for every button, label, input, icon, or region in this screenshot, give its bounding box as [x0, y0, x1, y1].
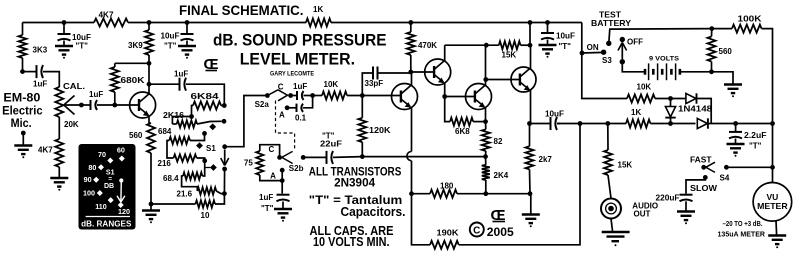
svg-text:dB. SOUND PRESSURE: dB. SOUND PRESSURE: [213, 30, 387, 49]
node V+ stub: [580, 51, 585, 56]
wire: [282, 202, 284, 209]
node 3K9/680K/collector: [147, 61, 152, 66]
node tap contact: [202, 158, 207, 163]
battery plate: [679, 69, 682, 75]
wire: [445, 97, 450, 122]
wiper node: [79, 103, 84, 108]
ground below 2.2uF: [727, 143, 745, 145]
svg-text:680K: 680K: [121, 76, 145, 85]
resistor R 6K84: [193, 102, 221, 110]
node Q5e/2k7/10uF: [527, 121, 532, 126]
svg-text:4K7: 4K7: [38, 146, 53, 155]
wire: [287, 107, 296, 109]
svg-text:S4: S4: [720, 173, 730, 182]
node 190K rail: [578, 121, 583, 126]
ground below 4K7: [50, 177, 68, 179]
svg-text:1uF: 1uF: [33, 79, 47, 88]
wire: [529, 124, 531, 147]
battery plate: [661, 69, 664, 75]
svg-text:110: 110: [95, 202, 107, 211]
wire: [361, 142, 363, 157]
wire step to 216: [167, 141, 174, 159]
wire: [412, 194, 431, 245]
wire: [685, 201, 687, 210]
svg-text:C: C: [269, 145, 275, 154]
svg-text:15K: 15K: [618, 161, 633, 170]
wire emitter Q1: [148, 116, 150, 123]
wire: [711, 62, 713, 72]
node caps out: [310, 93, 315, 98]
wire: [114, 92, 116, 105]
S2a contact fork: [278, 90, 288, 101]
wire: [529, 194, 532, 214]
node diode tap: [668, 96, 673, 101]
svg-text:60: 60: [117, 146, 125, 155]
svg-text:2005: 2005: [487, 227, 515, 239]
wire: [151, 203, 196, 205]
wire 10K to Q2 base: [347, 95, 401, 97]
svg-text:1uF: 1uF: [174, 70, 188, 79]
svg-text:470K: 470K: [418, 41, 437, 50]
wire battery to ground tap: [680, 71, 712, 73]
battery plate: [644, 69, 647, 75]
svg-text:"T": "T": [164, 42, 177, 51]
wire A to 1uF T: [281, 170, 283, 193]
svg-text:2.2uF: 2.2uF: [744, 131, 767, 140]
svg-text:120: 120: [118, 207, 130, 216]
wire pot to 4K7: [58, 117, 60, 139]
node tap contact: [222, 119, 227, 124]
S2b pole: [301, 155, 306, 160]
wire: [485, 157, 487, 165]
wire: [493, 221, 506, 223]
wire: [378, 72, 411, 74]
node ladder top: [222, 103, 227, 108]
svg-text:21.6: 21.6: [177, 190, 193, 199]
wire: [485, 180, 487, 194]
node mic/3K3/1uF: [20, 69, 25, 74]
wire: [361, 96, 363, 118]
wire 684 tap: [190, 135, 205, 141]
wire: [557, 123, 626, 125]
wire: [735, 139, 737, 144]
svg-text:Capacitors.: Capacitors.: [341, 204, 406, 219]
wire rail to 3K3: [22, 23, 24, 36]
S3 centre contact: [606, 41, 611, 46]
resistor R 15K (Q3/Q5): [499, 41, 521, 49]
potentiometer 20K CAL.: [55, 87, 63, 117]
dashed S2 gang line: [276, 101, 295, 151]
svg-text:DB: DB: [104, 183, 114, 190]
resistor R 10: [196, 200, 216, 207]
wire 75 to A node: [260, 175, 282, 181]
wire: [529, 169, 532, 193]
wire: [221, 105, 224, 107]
wire 10 to column: [215, 194, 224, 204]
node vertical diode row: [668, 121, 673, 126]
ground below 1uF T: [274, 208, 292, 210]
transistor Q2 2N3904: [392, 84, 418, 110]
wire: [260, 145, 280, 158]
junction on V+ rail: [62, 20, 67, 25]
wire: [708, 123, 773, 125]
svg-text:4K7: 4K7: [99, 11, 115, 20]
panel wiper arrow: [119, 178, 123, 182]
svg-text:"T": "T": [749, 142, 762, 151]
svg-text:SLOW: SLOW: [690, 184, 718, 193]
node 2k7 bottom/ground: [528, 191, 533, 196]
wire: [445, 44, 499, 46]
wire: [411, 107, 413, 152]
svg-text:S3: S3: [602, 56, 612, 65]
wire meter rail down: [762, 29, 773, 183]
resistor R 10K (battery test): [627, 95, 655, 103]
svg-text:EM-80: EM-80: [3, 93, 40, 105]
svg-text:6K8: 6K8: [455, 127, 470, 136]
wire: [150, 204, 152, 210]
wire to Q4 base: [445, 96, 475, 98]
S4 contact fork: [706, 162, 715, 172]
wire: [64, 96, 75, 106]
svg-text:2N3904: 2N3904: [334, 175, 375, 189]
capacitor C 1uF T (S2b): [277, 194, 290, 196]
wire Q3 collector: [444, 45, 446, 61]
svg-text:216: 216: [158, 159, 172, 168]
wire: [712, 28, 732, 30]
panel contact diamond: [108, 197, 114, 203]
svg-text:–20 TO +3 dB.: –20 TO +3 dB.: [723, 221, 763, 228]
wire contact column: [223, 169, 225, 194]
resistor R 1K (meter): [626, 120, 650, 128]
svg-text:"T": "T": [559, 42, 572, 51]
wire: [225, 158, 229, 166]
panel contact diamond: [118, 202, 124, 208]
ground mic: [14, 144, 32, 146]
panel contact diamond: [98, 164, 104, 170]
junction on V+ rail: [528, 20, 533, 25]
svg-text:100K: 100K: [738, 15, 762, 24]
wire: [459, 124, 580, 245]
svg-text:10: 10: [201, 211, 210, 220]
wire: [485, 122, 487, 130]
S3 pole: [620, 59, 625, 64]
panel contact diamond: [119, 156, 125, 162]
node base/680K: [112, 103, 117, 108]
resistor R 21.6: [197, 187, 216, 194]
wire: [333, 156, 362, 159]
capacitor C 22uF T: [326, 151, 328, 164]
svg-text:A: A: [270, 172, 276, 181]
resistor R 2K4: [482, 165, 490, 180]
svg-text:68.4: 68.4: [163, 174, 179, 183]
wire: [607, 124, 609, 151]
wire: [186, 41, 188, 46]
wire: [412, 193, 431, 195]
transistor Q5 2N3904: [511, 67, 536, 92]
S1 pole: [222, 144, 227, 149]
S3 ON contact: [601, 50, 606, 55]
wire: [23, 71, 37, 73]
svg-text:METER: METER: [757, 201, 788, 211]
wire: [23, 22, 95, 24]
wire stub to ON contact: [582, 51, 604, 54]
svg-text:2K4: 2K4: [494, 171, 509, 180]
svg-text:LEVEL METER.: LEVEL METER.: [240, 49, 355, 68]
wire: [362, 73, 373, 96]
node tap/bottom column: [222, 191, 227, 196]
capacitor C 1uF (S2a C position): [296, 91, 298, 100]
S2b contact fork: [282, 151, 293, 163]
ground below 10uF T: [55, 45, 73, 47]
node Q3e/Q4b: [442, 94, 447, 99]
ground below 10uF T: [178, 45, 196, 47]
svg-text:A: A: [279, 111, 285, 120]
wire 560 to ground rail: [150, 153, 152, 204]
S1 selected contact: [222, 167, 227, 172]
S4 SLOW contact: [703, 175, 708, 180]
wire: [557, 123, 560, 125]
node Q2e/180/190K: [409, 191, 414, 196]
svg-text:=: =: [108, 176, 112, 183]
wire: [43, 72, 59, 87]
wire: [225, 96, 268, 147]
resistor R 190K: [430, 241, 459, 249]
node audio branch: [605, 121, 610, 126]
wire: [224, 150, 226, 166]
panel separator line: [86, 216, 130, 218]
wire rail to 15K node: [529, 23, 531, 46]
resistor R 4K7 (pot bottom): [55, 139, 63, 167]
panel contact diamond: [107, 158, 113, 164]
panel dB. RANGES (black box): [79, 144, 136, 230]
battery plate: [675, 63, 677, 80]
node meter rail: [770, 121, 775, 126]
svg-text:1K: 1K: [313, 5, 323, 14]
battery plate: [648, 63, 650, 80]
wire node to Q3 base: [411, 71, 434, 73]
junction on V+ rail: [545, 20, 550, 25]
wire: [304, 95, 313, 97]
svg-text:S1: S1: [206, 144, 216, 153]
S2a A contact: [285, 105, 290, 110]
wire Q3 emitter: [444, 83, 446, 97]
node Q2 collector/Q3 base: [408, 70, 413, 75]
svg-text:10K: 10K: [637, 83, 652, 92]
node tap contact: [202, 131, 207, 136]
svg-text:10uF: 10uF: [545, 110, 564, 119]
wire: [582, 23, 627, 99]
wire 21.6 tap: [216, 191, 224, 194]
junction on V+ rail: [147, 20, 152, 25]
wire: [267, 90, 278, 96]
wire: [148, 55, 150, 63]
resistor R 1K (supply): [306, 19, 331, 27]
resistor R 560 (Q1 emitter): [147, 123, 155, 153]
wire: [115, 62, 149, 64]
wire: [128, 22, 306, 24]
mic terminal: [21, 131, 26, 136]
wire meter to ground: [775, 221, 778, 235]
wire: [547, 40, 549, 45]
wire 216/68.4 right step: [197, 158, 205, 176]
svg-text:70: 70: [98, 150, 106, 159]
svg-text:10 VOLTS MIN.: 10 VOLTS MIN.: [313, 235, 390, 249]
svg-text:10uF: 10uF: [556, 32, 575, 41]
S1 contact diamond: [209, 123, 216, 130]
wire to Q1 base: [97, 104, 139, 106]
wire to ground: [712, 72, 734, 84]
battery plate: [652, 69, 655, 75]
battery plate: [657, 63, 659, 80]
resistor R 2K16: [177, 120, 197, 127]
wire: [547, 23, 549, 33]
node 2K4 bottom: [483, 191, 488, 196]
junction meter rail: [770, 165, 775, 170]
ground battery: [724, 83, 742, 85]
wire: [64, 104, 81, 106]
node after C contact: [288, 93, 293, 98]
transistor Q4 2N3904: [466, 84, 492, 110]
wire: [735, 124, 737, 132]
diode D 1N4148 (top row): [686, 93, 696, 103]
wire: [58, 167, 60, 177]
svg-text:1uF: 1uF: [293, 82, 307, 91]
node 82/2K4: [483, 154, 488, 159]
wire: [313, 95, 322, 97]
svg-text:9 VOLTS: 9 VOLTS: [649, 56, 680, 63]
wire: [521, 44, 531, 46]
wire: [530, 123, 551, 125]
svg-text:80: 80: [88, 163, 96, 172]
svg-text:90: 90: [84, 175, 92, 184]
node 15K/Q4 collector: [484, 43, 489, 48]
wire: [670, 118, 672, 124]
wire step to 21.6: [182, 176, 198, 191]
wire: [473, 121, 485, 123]
meter VU: [753, 183, 792, 222]
node 75/A: [280, 178, 285, 183]
S3 OFF contact: [620, 37, 625, 42]
diode D 1N4148 (meter row): [697, 118, 707, 128]
svg-text:22uF: 22uF: [320, 140, 342, 149]
wire: [622, 62, 645, 72]
wire: [410, 23, 412, 33]
wire to Q5 base: [486, 79, 520, 81]
wire: [611, 219, 613, 232]
svg-text:2k7: 2k7: [539, 155, 553, 164]
wire: [149, 122, 151, 124]
svg-text:S2b: S2b: [289, 164, 304, 173]
wire: [186, 23, 188, 34]
S1 contact diamond: [210, 164, 217, 171]
wire SLOW to 220uF: [686, 177, 705, 193]
wire: [485, 151, 487, 157]
wire: [410, 55, 412, 72]
svg-text:3K3: 3K3: [33, 46, 48, 55]
wire: [650, 123, 695, 125]
transistor Q3 2N3904: [425, 59, 451, 85]
resistor R 684: [169, 137, 190, 144]
wire: [149, 83, 180, 85]
svg-text:75: 75: [244, 159, 253, 168]
panel contact diamond: [97, 190, 103, 196]
wire row to 82/2K4 node: [362, 156, 485, 158]
svg-text:S2a: S2a: [255, 100, 270, 109]
svg-text:dB. RANGES: dB. RANGES: [81, 220, 132, 229]
wire contact to meter node: [609, 29, 712, 44]
wire 3K3 to mic node: [22, 58, 24, 72]
wire: [331, 22, 582, 24]
wire 2K16 tap: [197, 121, 222, 124]
wire: [63, 41, 65, 46]
svg-text:1K: 1K: [631, 108, 641, 117]
wire: [221, 158, 225, 166]
wire: [148, 23, 150, 31]
capacitor C 220uF: [680, 194, 693, 196]
svg-text:220uF: 220uF: [656, 193, 680, 202]
wire: [618, 43, 622, 51]
svg-text:2K16: 2K16: [163, 111, 185, 120]
node collector/1uF out: [147, 82, 152, 87]
svg-text:FAST: FAST: [690, 155, 712, 164]
svg-text:FINAL SCHEMATIC.: FINAL SCHEMATIC.: [179, 2, 304, 18]
resistor R 4K7 (supply filter): [94, 19, 128, 27]
ground center rail: [522, 213, 540, 215]
wire diode down to meter row: [697, 99, 712, 124]
panel contact diamond: [93, 177, 99, 183]
svg-text:10uF: 10uF: [161, 32, 180, 41]
resistor R 68.4: [183, 172, 202, 179]
svg-text:684: 684: [158, 127, 172, 136]
svg-text:OUT: OUT: [634, 210, 651, 219]
wire 6K84 left step: [192, 106, 194, 117]
copyright: [470, 223, 484, 237]
svg-text:GARY LECOMTE: GARY LECOMTE: [270, 71, 314, 78]
svg-text:ON: ON: [587, 43, 599, 52]
wire: [411, 161, 413, 194]
node Q4e/6K8/82: [483, 119, 488, 124]
wire collector Q1: [148, 63, 150, 94]
transistor Q1 2N3904: [130, 92, 156, 118]
svg-text:3K9: 3K9: [128, 41, 143, 50]
battery plate: [670, 69, 673, 75]
svg-text:560: 560: [129, 131, 143, 140]
wire: [81, 104, 90, 106]
S2b A contact: [280, 168, 285, 173]
resistor R 82: [482, 129, 490, 151]
svg-text:C: C: [473, 225, 480, 236]
svg-text:CAL.: CAL.: [63, 82, 85, 91]
node tap: [189, 114, 194, 119]
wire: [711, 29, 713, 37]
svg-text:15K: 15K: [502, 51, 517, 60]
svg-text:100: 100: [83, 189, 95, 198]
wire: [114, 63, 116, 67]
wire: [64, 105, 75, 115]
S2b C contact: [277, 155, 282, 160]
node 2.2uF tap: [733, 121, 738, 126]
svg-text:Mic.: Mic.: [11, 118, 32, 130]
svg-text:"T": "T": [261, 204, 274, 213]
S1 contact diamond: [196, 142, 203, 149]
svg-text:120K: 120K: [369, 126, 391, 135]
wire: [621, 43, 623, 60]
node 120K bottom: [360, 154, 365, 159]
ground Q1 emitter network: [142, 209, 160, 211]
wire: [206, 70, 218, 72]
svg-text:135uA METER: 135uA METER: [718, 231, 766, 238]
svg-text:20K: 20K: [64, 120, 79, 129]
